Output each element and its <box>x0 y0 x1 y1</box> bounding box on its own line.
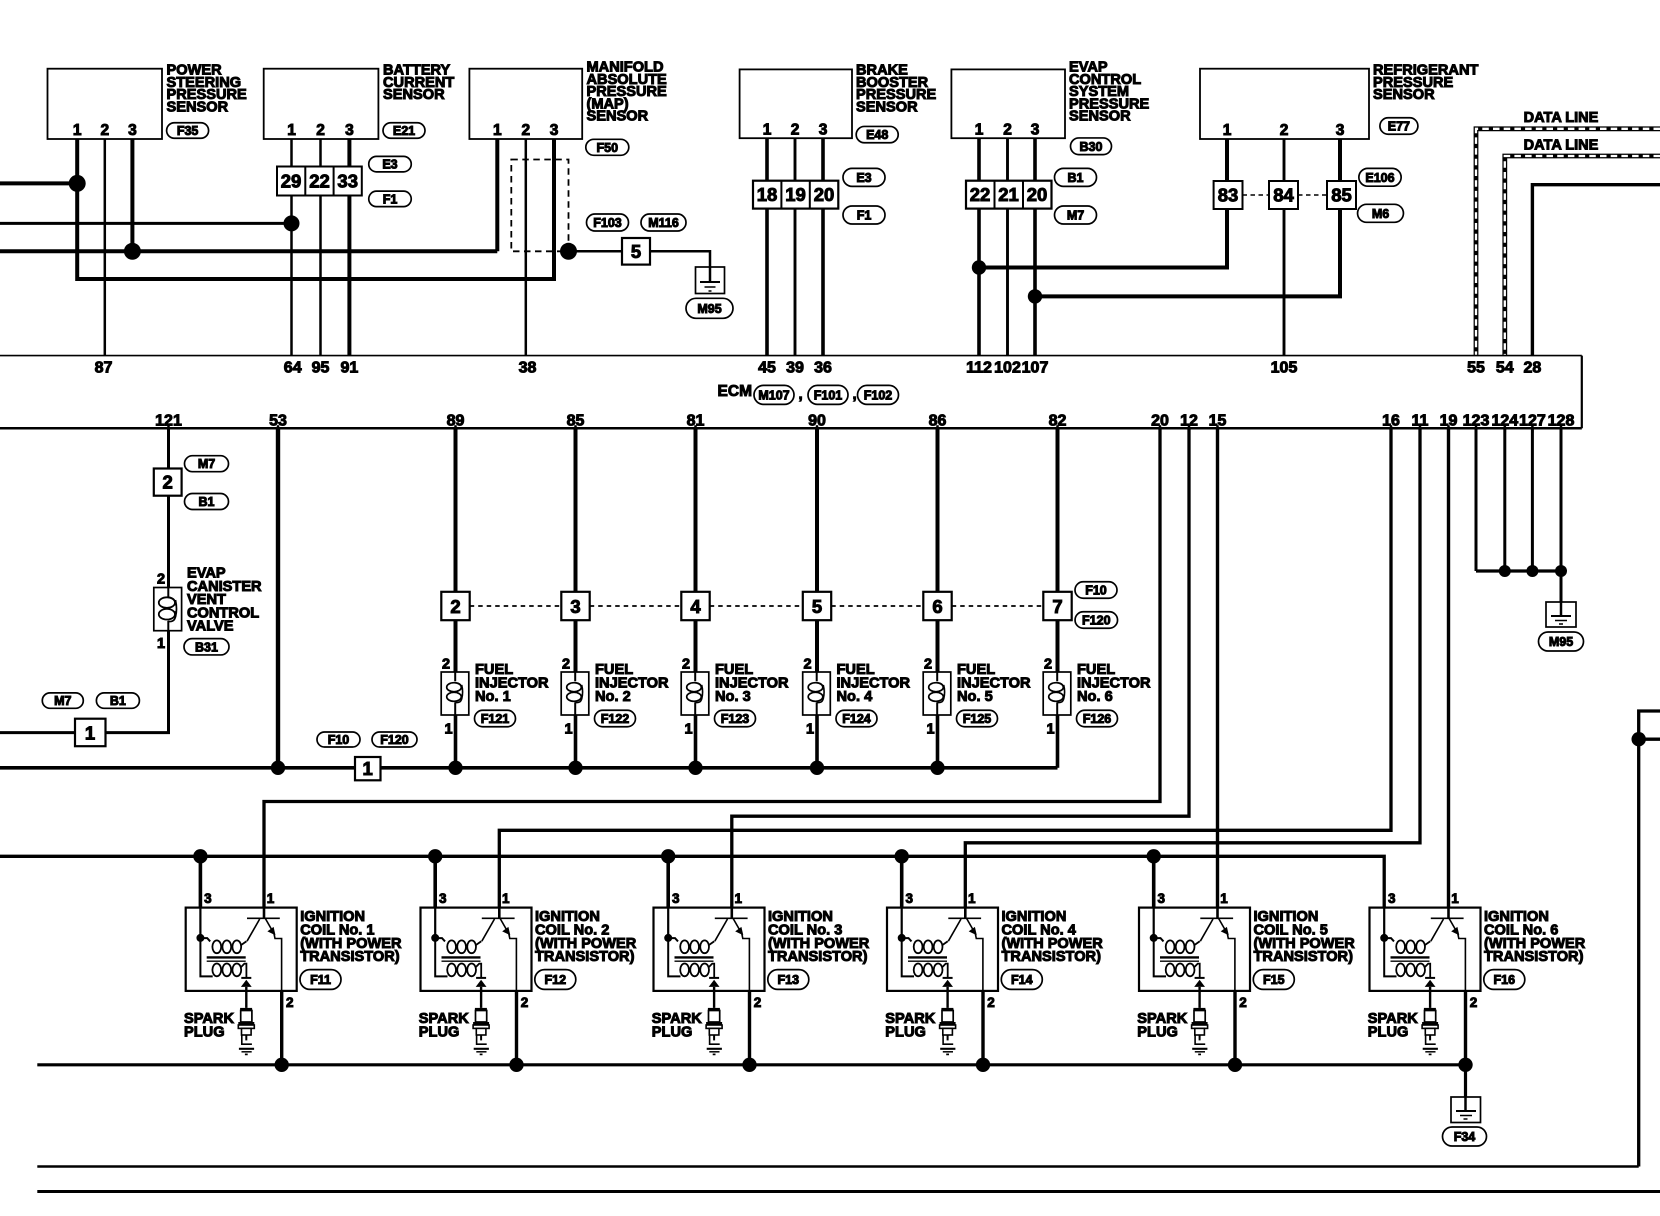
svg-text:2: 2 <box>286 995 294 1010</box>
svg-text:F122: F122 <box>601 712 630 726</box>
svg-text:21: 21 <box>998 184 1019 205</box>
svg-text:B1: B1 <box>199 495 215 509</box>
svg-text:22: 22 <box>309 171 330 192</box>
svg-text:TRANSISTOR): TRANSISTOR) <box>1484 949 1584 965</box>
svg-text:1: 1 <box>1220 891 1228 906</box>
svg-text:PLUG: PLUG <box>885 1025 926 1041</box>
svg-text:112: 112 <box>966 360 992 377</box>
svg-text:1: 1 <box>975 122 984 139</box>
svg-text:PLUG: PLUG <box>652 1025 693 1041</box>
svg-text:ECM: ECM <box>718 383 752 400</box>
svg-text:F120: F120 <box>380 733 409 747</box>
svg-text:45: 45 <box>758 360 776 377</box>
svg-text:20: 20 <box>1027 184 1048 205</box>
svg-text:2: 2 <box>521 995 529 1010</box>
svg-text:107: 107 <box>1022 360 1049 377</box>
svg-text:SENSOR: SENSOR <box>167 99 229 115</box>
svg-text:B1: B1 <box>1068 171 1084 185</box>
svg-text:F121: F121 <box>481 712 510 726</box>
svg-text:3: 3 <box>905 891 913 906</box>
svg-text:F15: F15 <box>1263 973 1285 987</box>
svg-text:M7: M7 <box>198 457 215 471</box>
svg-text:PLUG: PLUG <box>1368 1025 1409 1041</box>
svg-text:20: 20 <box>814 184 835 205</box>
svg-text:1: 1 <box>1046 722 1054 738</box>
svg-text:39: 39 <box>786 360 804 377</box>
svg-text:3: 3 <box>439 891 447 906</box>
svg-text:1: 1 <box>806 722 814 738</box>
svg-text:1: 1 <box>157 636 165 652</box>
svg-text:PLUG: PLUG <box>419 1025 460 1041</box>
svg-text:F124: F124 <box>842 712 871 726</box>
svg-text:2: 2 <box>682 657 690 673</box>
svg-text:3: 3 <box>1031 122 1040 139</box>
svg-text:SENSOR: SENSOR <box>1069 109 1131 125</box>
svg-text:55: 55 <box>1467 360 1485 377</box>
svg-text:91: 91 <box>341 360 359 377</box>
svg-text:3: 3 <box>819 122 828 139</box>
svg-text:F101: F101 <box>814 388 843 402</box>
svg-text:19: 19 <box>785 184 806 205</box>
svg-text:SENSOR: SENSOR <box>856 99 918 115</box>
svg-text:29: 29 <box>281 171 302 192</box>
svg-text:1: 1 <box>968 891 976 906</box>
svg-text:3: 3 <box>672 891 680 906</box>
svg-text:,: , <box>799 386 803 403</box>
svg-text:1: 1 <box>684 722 692 738</box>
svg-text:F35: F35 <box>177 124 199 138</box>
svg-text:2: 2 <box>987 995 995 1010</box>
svg-text:E77: E77 <box>1388 120 1410 134</box>
svg-text:2: 2 <box>316 122 325 139</box>
svg-text:TRANSISTOR): TRANSISTOR) <box>1002 949 1102 965</box>
svg-text:3: 3 <box>345 122 354 139</box>
svg-text:1: 1 <box>1223 122 1232 139</box>
svg-text:5: 5 <box>812 596 822 617</box>
svg-text:SENSOR: SENSOR <box>383 87 445 103</box>
svg-text:DATA LINE: DATA LINE <box>1524 138 1599 154</box>
svg-text:F103: F103 <box>593 216 622 230</box>
svg-text:No. 1: No. 1 <box>475 689 511 705</box>
svg-text:SENSOR: SENSOR <box>1373 87 1435 103</box>
svg-text:M95: M95 <box>1549 635 1573 649</box>
svg-text:28: 28 <box>1524 360 1542 377</box>
svg-text:22: 22 <box>970 184 991 205</box>
svg-text:2: 2 <box>1044 657 1052 673</box>
svg-text:F50: F50 <box>597 141 619 155</box>
svg-text:2: 2 <box>924 657 932 673</box>
svg-text:1: 1 <box>363 758 373 779</box>
svg-text:1: 1 <box>267 891 275 906</box>
svg-text:1: 1 <box>1451 891 1459 906</box>
svg-text:M6: M6 <box>1372 207 1389 221</box>
svg-text:No. 5: No. 5 <box>957 689 993 705</box>
svg-text:2: 2 <box>754 995 762 1010</box>
svg-text:105: 105 <box>1271 360 1298 377</box>
svg-text:DATA LINE: DATA LINE <box>1524 110 1599 126</box>
svg-text:B31: B31 <box>195 640 218 654</box>
svg-text:87: 87 <box>95 360 113 377</box>
svg-text:6: 6 <box>932 596 942 617</box>
svg-text:VALVE: VALVE <box>187 619 234 635</box>
svg-text:E3: E3 <box>382 158 397 172</box>
svg-text:3: 3 <box>204 891 212 906</box>
svg-text:F1: F1 <box>383 192 398 206</box>
svg-text:2: 2 <box>1239 995 1247 1010</box>
svg-text:1: 1 <box>502 891 510 906</box>
svg-text:2: 2 <box>1280 122 1289 139</box>
svg-text:F12: F12 <box>545 973 567 987</box>
svg-text:3: 3 <box>1336 122 1345 139</box>
svg-text:F126: F126 <box>1083 712 1112 726</box>
svg-text:38: 38 <box>519 360 537 377</box>
svg-text:TRANSISTOR): TRANSISTOR) <box>300 949 400 965</box>
svg-text:2: 2 <box>1470 995 1478 1010</box>
svg-text:E21: E21 <box>393 124 415 138</box>
svg-text:1: 1 <box>287 122 296 139</box>
svg-text:1: 1 <box>763 122 772 139</box>
svg-text:3: 3 <box>550 122 559 139</box>
svg-text:No. 3: No. 3 <box>715 689 751 705</box>
svg-text:F1: F1 <box>857 209 872 223</box>
svg-text:F125: F125 <box>963 712 992 726</box>
svg-text:3: 3 <box>1388 891 1396 906</box>
svg-text:4: 4 <box>690 596 701 617</box>
svg-text:3: 3 <box>128 122 137 139</box>
svg-text:1: 1 <box>735 891 743 906</box>
svg-text:M7: M7 <box>1067 209 1084 223</box>
svg-text:2: 2 <box>100 122 109 139</box>
svg-text:,: , <box>853 386 857 403</box>
svg-text:F34: F34 <box>1454 1130 1476 1144</box>
svg-text:3: 3 <box>570 596 580 617</box>
svg-text:1: 1 <box>926 722 934 738</box>
svg-text:85: 85 <box>1331 185 1352 206</box>
svg-text:1: 1 <box>85 723 95 744</box>
svg-text:SENSOR: SENSOR <box>587 109 649 125</box>
svg-text:1: 1 <box>493 122 502 139</box>
svg-text:PLUG: PLUG <box>184 1025 225 1041</box>
svg-text:B30: B30 <box>1080 140 1103 154</box>
svg-text:1: 1 <box>564 722 572 738</box>
svg-text:84: 84 <box>1273 185 1294 206</box>
svg-text:95: 95 <box>312 360 330 377</box>
svg-text:F16: F16 <box>1494 973 1516 987</box>
svg-text:No. 2: No. 2 <box>595 689 631 705</box>
svg-text:64: 64 <box>284 360 302 377</box>
svg-text:F10: F10 <box>1085 584 1107 598</box>
svg-text:B1: B1 <box>110 694 126 708</box>
svg-text:No. 6: No. 6 <box>1077 689 1113 705</box>
svg-text:E3: E3 <box>856 171 871 185</box>
svg-text:2: 2 <box>803 657 811 673</box>
svg-text:3: 3 <box>1157 891 1165 906</box>
svg-text:E48: E48 <box>866 128 888 142</box>
svg-text:F102: F102 <box>864 388 893 402</box>
svg-text:18: 18 <box>757 184 778 205</box>
svg-text:2: 2 <box>521 122 530 139</box>
svg-text:54: 54 <box>1496 360 1514 377</box>
svg-text:2: 2 <box>562 657 570 673</box>
svg-text:TRANSISTOR): TRANSISTOR) <box>1254 949 1354 965</box>
svg-text:2: 2 <box>442 657 450 673</box>
svg-text:F14: F14 <box>1011 973 1033 987</box>
svg-text:2: 2 <box>450 596 460 617</box>
svg-text:36: 36 <box>814 360 832 377</box>
svg-text:5: 5 <box>631 241 641 262</box>
svg-text:2: 2 <box>157 572 165 588</box>
svg-text:2: 2 <box>791 122 800 139</box>
svg-text:TRANSISTOR): TRANSISTOR) <box>535 949 635 965</box>
svg-text:F120: F120 <box>1082 614 1111 628</box>
svg-text:1: 1 <box>444 722 452 738</box>
svg-text:TRANSISTOR): TRANSISTOR) <box>768 949 868 965</box>
svg-text:2: 2 <box>1003 122 1012 139</box>
svg-text:F123: F123 <box>721 712 750 726</box>
svg-text:2: 2 <box>163 472 173 493</box>
svg-text:PLUG: PLUG <box>1137 1025 1178 1041</box>
svg-text:102: 102 <box>994 360 1021 377</box>
svg-text:F11: F11 <box>310 973 331 987</box>
svg-text:F13: F13 <box>778 973 800 987</box>
svg-text:No. 4: No. 4 <box>837 689 874 705</box>
svg-text:33: 33 <box>337 171 358 192</box>
svg-text:F10: F10 <box>328 733 350 747</box>
svg-text:M7: M7 <box>54 694 71 708</box>
svg-text:M95: M95 <box>697 302 721 316</box>
svg-text:1: 1 <box>73 122 82 139</box>
svg-text:M116: M116 <box>648 216 679 230</box>
svg-text:7: 7 <box>1052 596 1062 617</box>
svg-text:M107: M107 <box>758 388 789 402</box>
svg-text:E106: E106 <box>1365 171 1394 185</box>
svg-text:83: 83 <box>1218 185 1239 206</box>
